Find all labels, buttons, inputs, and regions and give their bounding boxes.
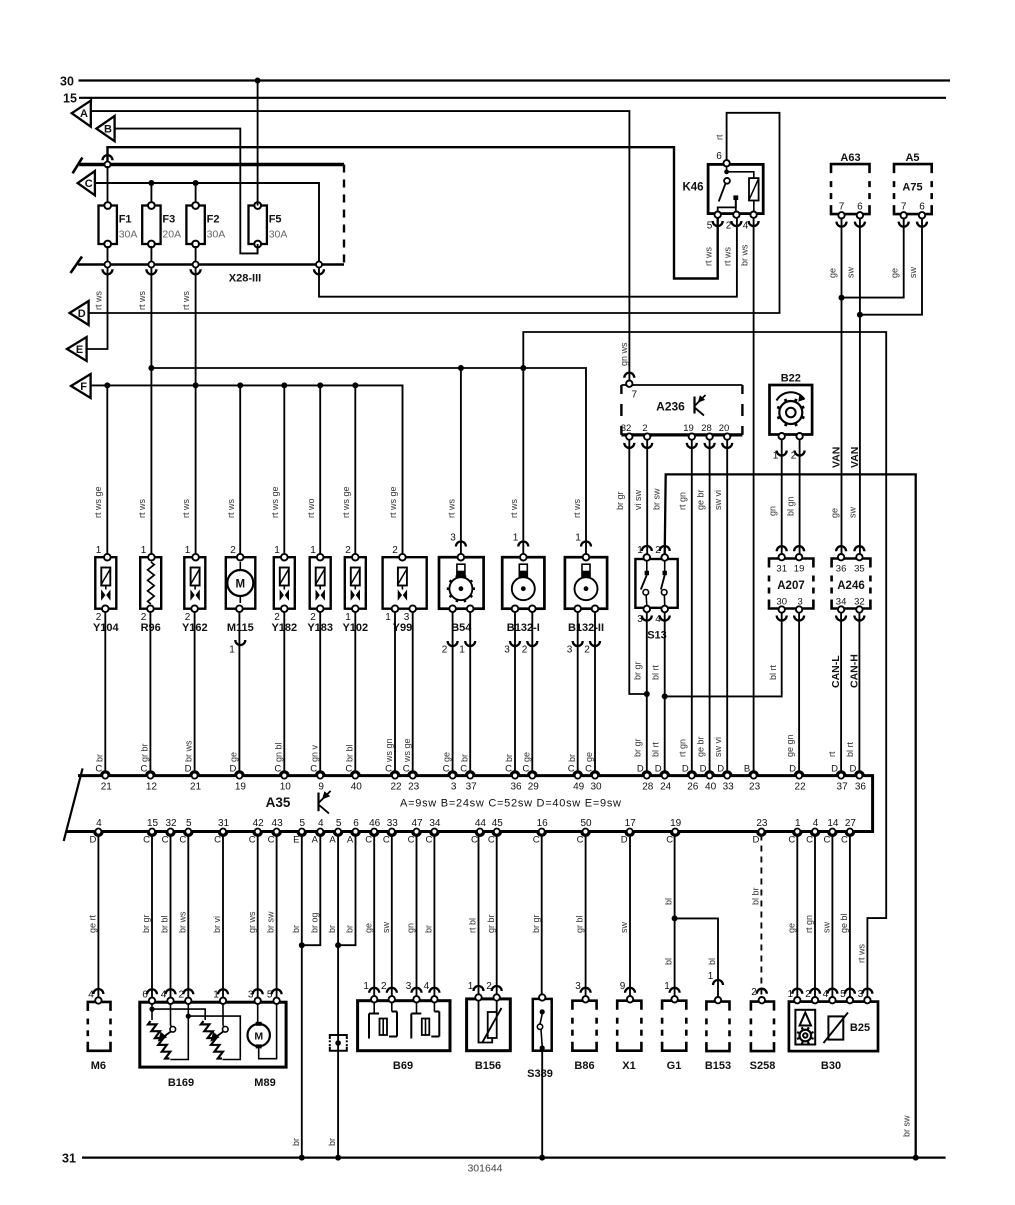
svg-text:D: D xyxy=(229,764,236,775)
svg-text:B132-II: B132-II xyxy=(568,622,604,634)
svg-text:1: 1 xyxy=(185,545,191,556)
svg-text:rt ws: rt ws xyxy=(703,247,713,266)
A35 top pin C30 xyxy=(591,771,600,775)
svg-text:6: 6 xyxy=(353,818,359,829)
svg-text:B25: B25 xyxy=(850,1022,870,1034)
svg-text:C: C xyxy=(443,764,450,775)
svg-text:rt ws: rt ws xyxy=(572,499,582,518)
svg-text:gr br: gr br xyxy=(486,914,496,933)
junction F-line to Y104 pin1 xyxy=(104,382,110,388)
svg-text:37: 37 xyxy=(837,782,849,793)
svg-text:VAN: VAN xyxy=(849,447,861,468)
wire S13 pin2 to ground rail (br sw) xyxy=(665,474,916,1157)
svg-text:2: 2 xyxy=(442,645,448,656)
svg-text:B: B xyxy=(744,764,750,775)
svg-text:gn: gn xyxy=(406,923,416,933)
svg-text:bl rt: bl rt xyxy=(768,664,778,680)
resistor R96 xyxy=(140,557,161,609)
svg-text:rt ws ge: rt ws ge xyxy=(388,486,398,518)
valve Y99 xyxy=(383,557,427,609)
B30 internal sensor symbols xyxy=(795,1010,815,1045)
svg-text:br ws: br ws xyxy=(739,244,749,266)
B156 pin2 terminal xyxy=(494,994,500,1000)
A35 bottom pin C33 xyxy=(387,832,396,836)
svg-text:C: C xyxy=(385,764,392,775)
B54 pin1 arc xyxy=(469,612,471,776)
svg-text:ge: ge xyxy=(521,752,531,762)
svg-text:br: br xyxy=(345,925,355,933)
bus line 30 xyxy=(79,79,951,81)
svg-text:C: C xyxy=(95,764,102,775)
svg-text:1: 1 xyxy=(141,545,147,556)
svg-text:A5: A5 xyxy=(905,152,919,164)
wire A236 pin28 to A35 D40 (ge br) xyxy=(709,440,711,776)
svg-text:A: A xyxy=(347,835,354,846)
svg-text:34: 34 xyxy=(429,818,441,829)
junction E5/A4 ground wires xyxy=(299,942,305,948)
svg-text:C: C xyxy=(788,835,795,846)
wire A35 C5 to B169 pin2 (br ws) xyxy=(187,835,189,1000)
wire A35 C14 to B30 pin4 (sw) xyxy=(831,835,833,1000)
svg-text:3: 3 xyxy=(248,990,254,1001)
svg-text:5: 5 xyxy=(267,990,273,1001)
svg-text:sw: sw xyxy=(908,267,918,279)
svg-text:C: C xyxy=(522,764,529,775)
svg-text:B86: B86 xyxy=(574,1060,594,1072)
A35 bottom pin E5 xyxy=(297,832,306,836)
svg-text:br: br xyxy=(94,754,104,762)
wire A63 pin7 VAN to A246 pin36 (ge) xyxy=(841,219,843,558)
svg-text:sw: sw xyxy=(381,922,391,934)
svg-text:4: 4 xyxy=(813,818,819,829)
svg-text:bl rt: bl rt xyxy=(651,741,661,757)
fuse F2 30A xyxy=(186,206,204,245)
A35 top pin D19 xyxy=(235,771,244,775)
junction ground br sw wire xyxy=(913,1155,919,1161)
svg-text:2: 2 xyxy=(522,645,528,656)
svg-text:D: D xyxy=(789,764,796,775)
svg-text:br: br xyxy=(327,1138,337,1146)
svg-text:ge: ge xyxy=(363,923,373,933)
A236 pin 32 terminal xyxy=(626,433,632,439)
svg-text:1: 1 xyxy=(213,990,219,1001)
svg-text:ge bl: ge bl xyxy=(839,913,849,933)
svg-text:C: C xyxy=(806,835,813,846)
svg-text:A=9sw B=24sw C=52sw D=40sw E=9: A=9sw B=24sw C=52sw D=40sw E=9sw xyxy=(400,798,621,810)
A35 bottom pin C47 xyxy=(412,832,421,836)
svg-text:rt ws: rt ws xyxy=(509,499,519,518)
A236 pin 28 terminal xyxy=(706,433,712,439)
junction ground A5 wire xyxy=(335,1155,341,1161)
svg-text:21: 21 xyxy=(101,782,113,793)
svg-text:sw vi: sw vi xyxy=(713,490,723,510)
svg-text:2: 2 xyxy=(486,981,492,992)
A207 pin31 terminal xyxy=(779,554,785,560)
valve Y162 xyxy=(184,557,205,609)
node D (section arrow) xyxy=(70,301,89,325)
svg-text:4: 4 xyxy=(743,221,749,232)
svg-text:2: 2 xyxy=(345,545,351,556)
node F (section arrow) xyxy=(71,374,91,398)
svg-text:D: D xyxy=(655,764,662,775)
svg-text:30A: 30A xyxy=(269,229,288,241)
B169 heater spring 1 xyxy=(148,1021,170,1059)
svg-text:C: C xyxy=(383,835,390,846)
X28-III bottom rail xyxy=(78,263,344,266)
svg-text:23: 23 xyxy=(756,818,768,829)
sensor B132-I xyxy=(502,557,544,609)
svg-text:C: C xyxy=(162,835,169,846)
svg-text:X28-III: X28-III xyxy=(229,273,261,285)
wire F3 bottom to R96 and sensor supply rail xyxy=(150,267,152,557)
svg-text:1: 1 xyxy=(229,645,235,656)
wire F1 top feed xyxy=(107,166,109,206)
B69 knock sensor symbol 2 xyxy=(416,1002,418,1013)
svg-text:ge: ge xyxy=(827,268,837,278)
A35 bottom pin D17 xyxy=(625,832,634,836)
A207 pin30 terminal xyxy=(779,606,785,612)
svg-text:rt ws: rt ws xyxy=(181,499,191,518)
svg-text:ws gn: ws gn xyxy=(384,738,394,763)
S13 pin terminals xyxy=(644,554,651,561)
wire A35 C47 to B69 pin3 (gn) xyxy=(416,835,418,1000)
svg-text:C: C xyxy=(425,835,432,846)
A236 transistor symbol xyxy=(693,397,695,414)
svg-text:C: C xyxy=(460,764,467,775)
M115 pin1 connector arc xyxy=(235,640,245,645)
A75 pin 7 terminal xyxy=(901,212,907,218)
A35 transistor symbol xyxy=(317,793,319,812)
svg-text:ge br: ge br xyxy=(695,736,705,757)
svg-text:rt: rt xyxy=(827,751,837,757)
svg-text:D: D xyxy=(89,835,96,846)
wire F3 bottom stub xyxy=(150,246,152,263)
svg-text:A: A xyxy=(329,835,336,846)
svg-text:2: 2 xyxy=(791,451,797,462)
svg-text:X1: X1 xyxy=(622,1060,635,1072)
A35 bottom pin C44 xyxy=(476,832,485,836)
wire F5 bottom link to node B wire xyxy=(257,244,259,253)
svg-text:9: 9 xyxy=(318,782,324,793)
wire line30 to F5 top xyxy=(257,81,259,206)
A236 pin 20 terminal xyxy=(724,433,730,439)
B30 pin 1 terminal xyxy=(794,997,800,1003)
svg-text:br gr: br gr xyxy=(141,914,151,933)
valve Y183 xyxy=(310,557,331,609)
wire A35 C44 to B156 pin1 (rt bl) xyxy=(478,835,480,998)
svg-text:19: 19 xyxy=(683,423,694,434)
A35 top pin C23 xyxy=(408,771,417,775)
svg-text:br sw: br sw xyxy=(902,1115,912,1137)
svg-text:5: 5 xyxy=(300,818,306,829)
connector A207 xyxy=(769,559,813,568)
B30 pin 3 terminal xyxy=(864,997,870,1003)
svg-text:gn: gn xyxy=(768,506,778,516)
component B153 xyxy=(706,1002,729,1011)
wire A236 pin20 to A35 D33 (sw vi) xyxy=(726,440,728,776)
A35 top pin C36 xyxy=(511,771,520,775)
svg-text:9: 9 xyxy=(620,981,626,992)
svg-text:gr ws: gr ws xyxy=(247,911,257,933)
svg-text:A246: A246 xyxy=(837,580,865,592)
component B30 xyxy=(789,1002,878,1052)
junction A5/A6 ground wires xyxy=(335,942,341,948)
A35 bar left diagonal xyxy=(64,768,83,841)
motor M89 xyxy=(248,1024,270,1046)
svg-text:F: F xyxy=(80,381,87,393)
svg-text:VAN: VAN xyxy=(831,447,843,468)
svg-text:br: br xyxy=(424,925,434,933)
wire A35 C42 to M89 pin3 (gr ws) xyxy=(257,835,259,1000)
svg-text:2: 2 xyxy=(805,989,811,1000)
fuse F1 30A xyxy=(99,206,117,245)
svg-text:50: 50 xyxy=(580,818,592,829)
svg-text:6: 6 xyxy=(919,202,925,213)
svg-text:C: C xyxy=(140,764,147,775)
svg-text:4: 4 xyxy=(823,989,829,1000)
svg-text:6: 6 xyxy=(142,990,148,1001)
svg-text:2: 2 xyxy=(642,423,647,434)
svg-text:2: 2 xyxy=(584,645,590,656)
junction sensor supply to B132-I pin1 xyxy=(520,365,526,371)
svg-text:30A: 30A xyxy=(119,229,138,241)
B169 switch contact 2 xyxy=(222,1004,224,1026)
wire branch to B153 pin1 (bl) xyxy=(675,918,718,997)
wire A35 C50 to B86 pin3 (gr bl) xyxy=(585,835,587,1000)
A35 bottom pin D4 xyxy=(94,832,103,836)
svg-text:B153: B153 xyxy=(705,1060,731,1072)
S13 internal contacts xyxy=(645,571,649,575)
svg-text:E: E xyxy=(293,835,299,846)
svg-text:21: 21 xyxy=(190,782,202,793)
svg-text:rt gn: rt gn xyxy=(804,915,814,933)
svg-text:B69: B69 xyxy=(393,1060,413,1072)
A35 top pin D22 xyxy=(795,771,804,775)
B156 pin1 terminal xyxy=(475,994,481,1000)
svg-text:M89: M89 xyxy=(254,1077,275,1089)
svg-text:2: 2 xyxy=(726,221,732,232)
svg-text:CAN-L: CAN-L xyxy=(830,655,842,688)
svg-text:bl gn: bl gn xyxy=(785,496,795,516)
svg-text:5: 5 xyxy=(840,989,846,1000)
B169 switch contact 1 xyxy=(170,1004,172,1026)
svg-text:49: 49 xyxy=(573,782,585,793)
motor M115 xyxy=(226,557,256,609)
svg-text:gn ws: gn ws xyxy=(619,342,629,366)
wire to A35 top pin at x=355.3 (br bl) xyxy=(354,612,356,776)
F supply line to injection valves xyxy=(91,385,403,557)
svg-text:C: C xyxy=(408,835,415,846)
svg-text:20: 20 xyxy=(719,423,730,434)
svg-text:7: 7 xyxy=(839,202,845,213)
svg-text:G1: G1 xyxy=(667,1060,682,1072)
svg-text:ge: ge xyxy=(890,268,900,278)
valve Y102 xyxy=(345,557,366,609)
junction F-line to Y183 pin1 xyxy=(317,382,323,388)
svg-text:M: M xyxy=(254,1030,263,1042)
svg-text:B132-I: B132-I xyxy=(507,622,540,634)
valve Y182 xyxy=(274,557,295,609)
svg-text:br gr: br gr xyxy=(615,491,625,510)
svg-text:A: A xyxy=(312,835,319,846)
A35 bottom pin A4 xyxy=(316,832,325,836)
svg-text:3: 3 xyxy=(451,782,457,793)
A35 bottom pin C5 xyxy=(184,832,193,836)
svg-text:br gr: br gr xyxy=(633,738,643,757)
K46 pin 5 terminal xyxy=(715,212,721,218)
svg-text:gn v: gn v xyxy=(309,744,319,762)
svg-text:rt ws: rt ws xyxy=(856,944,866,963)
A236 pin 7 terminal xyxy=(626,381,632,387)
svg-text:E: E xyxy=(76,344,83,356)
fuse F3 20A xyxy=(142,206,160,245)
wire A35 C15 to B169 pin6 (br gr) xyxy=(151,835,153,1000)
svg-text:37: 37 xyxy=(466,782,478,793)
wire F2 bottom stub xyxy=(195,246,197,263)
svg-text:gr br: gr br xyxy=(140,743,150,762)
junction F2 rail with F supply line xyxy=(193,382,199,388)
K46 internal coil circuit xyxy=(726,166,728,172)
svg-text:D: D xyxy=(831,764,838,775)
svg-text:A75: A75 xyxy=(902,182,922,194)
svg-text:A236: A236 xyxy=(656,400,685,414)
svg-text:33: 33 xyxy=(723,782,735,793)
B169 internal wiring xyxy=(151,1004,153,1020)
connector A5 / A75 xyxy=(894,164,932,173)
inline connector on ground wire xyxy=(330,1035,347,1039)
svg-text:C: C xyxy=(365,835,372,846)
A35 top pin C3 xyxy=(448,771,457,775)
svg-text:40: 40 xyxy=(351,782,363,793)
svg-text:bl rt: bl rt xyxy=(651,664,661,680)
svg-text:4: 4 xyxy=(88,990,94,1001)
wire A35 C33 to B69 pin2 (sw) xyxy=(391,835,393,1000)
svg-text:br vi: br vi xyxy=(212,916,222,933)
svg-text:2: 2 xyxy=(230,545,236,556)
A246 pin35 terminal xyxy=(856,554,862,560)
svg-text:br: br xyxy=(327,925,337,933)
svg-text:1: 1 xyxy=(459,645,465,656)
svg-text:3: 3 xyxy=(406,981,412,992)
junction ground S389 wire xyxy=(539,1155,545,1161)
B132-I pin2 wire xyxy=(531,612,533,776)
A35 top pin C12 xyxy=(146,771,155,775)
svg-text:4: 4 xyxy=(424,981,430,992)
B30 temperature sensor B25 xyxy=(828,1016,843,1039)
svg-text:F3: F3 xyxy=(162,214,175,226)
svg-text:30: 30 xyxy=(60,75,74,89)
svg-text:br bl: br bl xyxy=(160,915,170,933)
svg-text:29: 29 xyxy=(528,782,540,793)
svg-text:A35: A35 xyxy=(266,795,291,810)
wire A35 C43 to M89 pin5 (br sw) xyxy=(276,835,278,1000)
A207 pin3 terminal xyxy=(796,606,802,612)
svg-text:1: 1 xyxy=(363,981,369,992)
svg-text:rt ws: rt ws xyxy=(226,499,236,518)
svg-text:26: 26 xyxy=(687,782,699,793)
junction F-line to Y102 pin2 xyxy=(352,382,358,388)
svg-text:1: 1 xyxy=(788,989,794,1000)
svg-text:14: 14 xyxy=(827,818,839,829)
B132-II pin2 wire xyxy=(594,612,596,776)
B54 pin3 connector arc xyxy=(456,542,466,547)
svg-text:3: 3 xyxy=(450,533,456,544)
svg-text:C: C xyxy=(585,764,592,775)
svg-text:rt: rt xyxy=(714,134,724,140)
A35 bottom pin C14 xyxy=(828,832,837,836)
svg-text:C: C xyxy=(666,835,673,846)
svg-text:32: 32 xyxy=(165,818,177,829)
svg-text:23: 23 xyxy=(408,782,420,793)
svg-text:5: 5 xyxy=(707,221,713,232)
svg-text:bl: bl xyxy=(707,958,717,965)
wire A35 C1 to B30 pin1 (ge) xyxy=(796,835,798,1000)
A35 bottom pin C43 xyxy=(272,832,281,836)
svg-text:ge: ge xyxy=(442,752,452,762)
svg-text:sw: sw xyxy=(847,507,857,519)
A35 top pin D40 xyxy=(705,771,714,775)
svg-text:2: 2 xyxy=(392,545,398,556)
wire A35 D23 to S258 pin2 (bl br, dashed) xyxy=(760,835,762,1000)
svg-text:D: D xyxy=(849,764,856,775)
svg-text:br: br xyxy=(291,1138,301,1146)
svg-text:B169: B169 xyxy=(168,1077,194,1089)
A35 top pin C49 xyxy=(573,771,582,775)
svg-text:bl: bl xyxy=(664,898,674,905)
connector A246 xyxy=(832,559,871,568)
X28-III right dashed edge xyxy=(343,165,345,265)
svg-text:C: C xyxy=(310,764,317,775)
wire to A35 top pin at x=105.3 (br) xyxy=(104,612,106,776)
A246 pin32 terminal xyxy=(856,606,862,612)
svg-text:D: D xyxy=(78,308,86,320)
svg-text:31: 31 xyxy=(62,1152,76,1166)
B69 pin 1 terminal xyxy=(371,996,377,1002)
svg-text:B30: B30 xyxy=(821,1060,841,1072)
svg-text:44: 44 xyxy=(475,818,487,829)
wire ge bus to A75 pin7 xyxy=(842,219,904,298)
svg-text:1: 1 xyxy=(773,451,779,462)
svg-text:6: 6 xyxy=(857,202,863,213)
B169 pin 1 terminal xyxy=(220,998,226,1004)
svg-text:1: 1 xyxy=(310,545,316,556)
svg-text:C: C xyxy=(488,835,495,846)
svg-text:bl br: bl br xyxy=(751,887,761,905)
svg-text:br: br xyxy=(567,754,577,762)
A246 pin34 terminal xyxy=(838,606,844,612)
wire B to fuse F5 bottom xyxy=(115,129,258,254)
wire A35 C4 to B30 pin2 (rt gn) xyxy=(814,835,816,1000)
svg-text:C: C xyxy=(179,835,186,846)
svg-text:3: 3 xyxy=(504,645,510,656)
svg-text:ge gn: ge gn xyxy=(785,734,795,757)
svg-text:1: 1 xyxy=(708,971,714,982)
terminal X28-III bottom at F3 (rt ws) xyxy=(148,262,154,268)
svg-text:B: B xyxy=(104,124,112,136)
svg-text:28: 28 xyxy=(642,782,654,793)
svg-text:19: 19 xyxy=(235,782,247,793)
svg-text:rt ws ge: rt ws ge xyxy=(270,486,280,518)
B169 pin 3 terminal xyxy=(255,998,261,1004)
A35 top pin C9 xyxy=(316,771,325,775)
svg-text:A207: A207 xyxy=(777,580,805,592)
A35 top pin D26 xyxy=(687,771,696,775)
svg-text:S389: S389 xyxy=(527,1068,553,1080)
A35 bottom pin C34 xyxy=(430,832,439,836)
A35 bottom pin C27 xyxy=(846,832,855,836)
sensor B22 (rotary) xyxy=(770,385,813,435)
A35 top pin C22 xyxy=(391,771,400,775)
